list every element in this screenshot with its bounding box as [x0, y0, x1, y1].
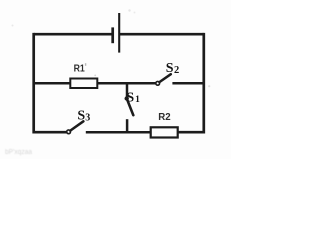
- svg-text:bP'xqzaa: bP'xqzaa: [5, 149, 32, 156]
- wire left side: [32, 33, 35, 134]
- battery B1 negative plate (short): [111, 27, 114, 43]
- battery B1 positive plate (long): [118, 13, 120, 53]
- wire right side: [202, 33, 205, 134]
- faint scan speck left of top-left corner: [12, 25, 14, 27]
- svg-text:3: 3: [85, 112, 90, 123]
- wire top-right segment (battery to top-right corner): [119, 33, 204, 36]
- svg-text:1: 1: [135, 95, 140, 105]
- switch S2 hinge contact: [156, 81, 160, 85]
- faint scan smudge above battery: [128, 9, 130, 11]
- wire middle (R1 to switch S2): [97, 82, 156, 85]
- wire bottom-right (R2 to corner): [178, 131, 204, 134]
- svg-text:R2: R2: [158, 112, 171, 123]
- wire bottom-middle (S3 to R2): [86, 131, 152, 134]
- svg-text:2: 2: [174, 65, 179, 76]
- wire middle-right (S2 to right side): [172, 82, 203, 85]
- switch S3 lever (open): [70, 121, 83, 130]
- switch S3 hinge contact: [67, 130, 71, 134]
- wire branch lower (S1 to bottom wire): [126, 119, 129, 132]
- svg-text:R1: R1: [74, 63, 86, 74]
- stray mark after R1 label: [85, 63, 86, 66]
- resistor R2: [151, 127, 178, 137]
- switch S2 lever (open): [159, 74, 170, 82]
- switch S1 pivot contact: [125, 96, 129, 100]
- switch S1 lever (open): [127, 100, 133, 115]
- wire branch upper (middle wire to S1): [126, 83, 129, 97]
- faint scan speck near R1: [94, 75, 96, 77]
- wire middle-left (left side to R1): [34, 82, 72, 85]
- faint scan speck right of right wire: [208, 85, 210, 87]
- svg-text:S: S: [126, 91, 134, 106]
- svg-text:S: S: [77, 109, 85, 124]
- wire bottom-left (corner to S3): [34, 131, 67, 134]
- wire top-left segment (battery to top-left corner): [34, 33, 113, 36]
- svg-text:S: S: [166, 61, 174, 76]
- resistor R1: [70, 79, 97, 89]
